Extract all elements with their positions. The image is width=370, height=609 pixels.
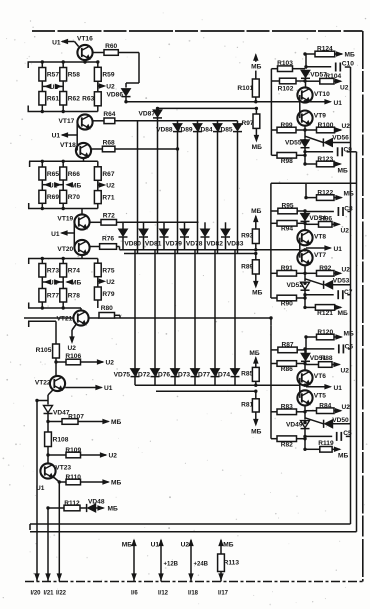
svg-text:U2: U2: [181, 542, 190, 549]
wire R60 to VD86: [118, 53, 139, 88]
wire R95 right: [297, 210, 305, 212]
resistor R97: [241, 114, 259, 128]
svg-text:U2: U2: [109, 453, 118, 460]
svg-text:R89: R89: [241, 263, 253, 270]
svg-text:VT23: VT23: [55, 464, 71, 471]
diode VD77: [194, 369, 220, 379]
svg-text:VT21: VT21: [57, 315, 73, 322]
svg-text:R82: R82: [281, 441, 293, 448]
transistor VT22: [35, 376, 65, 391]
svg-text:R95: R95: [281, 203, 293, 210]
svg-text:VT7: VT7: [314, 252, 326, 259]
svg-text:R121: R121: [317, 310, 333, 317]
node pin I/17: [218, 540, 234, 597]
resistor R66: [60, 167, 80, 180]
wire R112 branch: [48, 508, 64, 582]
svg-text:U2: U2: [106, 84, 115, 91]
svg-text:VD89: VD89: [176, 127, 193, 134]
wire block2 top line: [271, 182, 357, 184]
node MB arrow R119: [332, 447, 348, 459]
node MB arrow R124: [335, 52, 355, 59]
wire row2 line B: [124, 253, 256, 255]
node U2 arrow R100: [335, 123, 351, 132]
resistor R99: [277, 122, 296, 133]
node U2 arrow R109: [81, 453, 118, 460]
svg-text:VD55: VD55: [285, 139, 302, 146]
node U2 arrow R92: [334, 267, 350, 276]
node U2 arrow R96: [332, 222, 349, 234]
diode VD76: [154, 369, 180, 379]
node MB arrow R120: [334, 331, 354, 340]
resistor R104: [320, 73, 342, 84]
svg-text:R91: R91: [281, 265, 293, 272]
node U2 arrow R88: [332, 362, 349, 374]
resistor R77: [39, 289, 59, 303]
wire block3 outer rail: [271, 325, 277, 438]
svg-text:R98: R98: [281, 158, 293, 165]
wire R119 left: [305, 448, 320, 450]
svg-text:VT8: VT8: [314, 234, 326, 241]
wire R121 left: [305, 306, 315, 308]
svg-text:U2: U2: [342, 267, 351, 274]
svg-text:R124: R124: [317, 46, 333, 53]
node pin I/12: [151, 540, 179, 597]
wire R88 left: [305, 364, 319, 366]
node U1 arrow line row3: [306, 385, 342, 392]
wire R85 bottom: [255, 381, 257, 385]
wire branch to I20: [37, 401, 48, 582]
svg-text:VD82: VD82: [206, 240, 223, 247]
resistor R58: [60, 68, 80, 82]
wire block1 outer rail: [271, 69, 277, 156]
wire stub below VD79: [163, 237, 165, 250]
diode VD84: [196, 124, 222, 134]
svg-text:R86: R86: [281, 366, 293, 373]
wire VT22 to VD47: [48, 390, 53, 405]
svg-text:VT18: VT18: [60, 142, 76, 149]
svg-text:R64: R64: [103, 111, 115, 118]
wire R57 R58 top stubs: [42, 62, 63, 68]
svg-text:R60: R60: [105, 43, 117, 50]
svg-text:U1: U1: [49, 182, 58, 189]
svg-text:R104: R104: [325, 73, 341, 80]
svg-text:R90: R90: [281, 301, 293, 308]
svg-text:VD81: VD81: [145, 240, 162, 247]
resistor R76: [100, 236, 117, 250]
svg-text:VD88: VD88: [156, 127, 173, 134]
svg-text:МБ: МБ: [345, 52, 355, 59]
svg-text:U2: U2: [340, 85, 349, 92]
wire node line L1a: [126, 101, 300, 103]
resistor R87: [278, 342, 297, 353]
wire junction to R109: [48, 454, 66, 456]
diode VD83: [221, 229, 244, 247]
svg-text:U2: U2: [341, 367, 350, 374]
wire base bar VT8 VT7: [299, 238, 301, 258]
svg-text:R69: R69: [47, 194, 59, 201]
svg-text:VT16: VT16: [77, 35, 93, 42]
svg-text:МБ: МБ: [111, 419, 121, 426]
diode VD73: [174, 369, 200, 379]
node U1 MB row stage2: [42, 180, 81, 190]
wire VD50 wires: [305, 418, 351, 424]
wire stub above VD84: [217, 121, 219, 124]
wire VT16 collector: [93, 52, 104, 54]
svg-text:VD73: VD73: [174, 371, 191, 378]
node U1 arrow between VT19 VT20: [51, 222, 74, 248]
wire R100 left: [305, 129, 317, 131]
svg-text:U1: U1: [334, 246, 343, 253]
resistor R71: [94, 191, 114, 204]
resistor R91: [277, 265, 297, 276]
diode VD79: [160, 229, 183, 247]
wire C7 left: [305, 294, 334, 296]
svg-text:R83: R83: [281, 404, 293, 411]
wire bus vertical x197: [197, 131, 199, 253]
resistor R102: [278, 78, 296, 92]
svg-text:VD76: VD76: [154, 371, 171, 378]
wire R79 bottom: [97, 300, 99, 308]
svg-text:U2: U2: [106, 360, 115, 367]
wire VT22 junction R106: [56, 361, 66, 363]
wire stub above VD89: [197, 121, 199, 124]
wire C9 right to rail B: [347, 151, 357, 153]
svg-text:U2: U2: [106, 279, 115, 286]
svg-text:R68: R68: [103, 139, 115, 146]
wire R87 right: [297, 349, 305, 351]
wire stub above VD83: [225, 222, 227, 229]
svg-text:I/17: I/17: [218, 591, 229, 597]
svg-text:МБ: МБ: [252, 289, 262, 296]
resistor R63: [82, 92, 101, 106]
svg-text:R119: R119: [318, 440, 334, 447]
wire R98 right: [297, 154, 306, 156]
wire R102 left: [271, 80, 279, 82]
wire right border line: [362, 31, 364, 582]
svg-text:R66: R66: [68, 171, 80, 178]
wire bottom wrap line B: [30, 531, 357, 533]
svg-text:R92: R92: [319, 265, 331, 272]
wire C10 right to rail: [345, 66, 351, 68]
svg-text:R102: R102: [278, 85, 294, 92]
svg-text:VT5: VT5: [314, 392, 326, 399]
svg-text:VD79: VD79: [165, 240, 182, 247]
resistor R88 body: [319, 362, 333, 368]
wire C10 left: [306, 67, 331, 69]
svg-text:VD80: VD80: [124, 240, 141, 247]
wire R93 bottom: [255, 244, 257, 250]
node U1 arrow line L1a: [306, 100, 342, 107]
wire R82 right: [297, 438, 306, 440]
diode VD75: [114, 369, 140, 379]
diode VD78: [180, 229, 203, 247]
wire C9 left: [305, 151, 333, 153]
transistor VT6: [297, 370, 326, 385]
svg-text:R93: R93: [241, 233, 253, 240]
svg-text:R105: R105: [36, 347, 52, 354]
resistor R65: [39, 167, 59, 180]
svg-text:U2: U2: [68, 345, 77, 352]
svg-text:R76: R76: [102, 236, 114, 243]
wire base bar VT10 VT9: [299, 95, 301, 118]
svg-text:МБ: МБ: [122, 542, 132, 549]
resistor R100: [317, 122, 335, 133]
wire R72 to row line: [117, 221, 124, 223]
wire row2 line A: [122, 249, 301, 251]
svg-text:U1: U1: [52, 39, 61, 46]
wire R123 left: [305, 163, 317, 165]
wire VT21 base line: [24, 308, 81, 318]
wire R92 left: [305, 272, 317, 274]
svg-text:R107: R107: [68, 413, 84, 420]
resistor R101: [237, 79, 259, 97]
wire VT23 to R110: [59, 481, 66, 483]
wire R94 left: [271, 222, 277, 224]
wire R105 to VT22: [55, 358, 57, 376]
node U1 input of VT16: [52, 39, 79, 46]
wire feed to R105: [28, 321, 56, 344]
wire bus vertical x217: [217, 131, 219, 253]
wire stub below VD83: [225, 237, 227, 250]
svg-text:МБ: МБ: [108, 506, 118, 513]
wire R89 top: [255, 254, 257, 260]
node U2 arrow stage2: [98, 180, 115, 190]
svg-text:R120: R120: [317, 329, 333, 336]
wire bus vertical x177: [177, 131, 179, 253]
wire bus vertical low x235: [234, 250, 236, 369]
wire R104 left: [306, 80, 320, 82]
svg-text:R78: R78: [68, 293, 80, 300]
svg-text:R75: R75: [102, 267, 114, 274]
node MB arrow R123: [334, 162, 348, 175]
wire block2 outer rail: [271, 183, 277, 298]
wire VT17 collector: [93, 120, 104, 122]
svg-text:VT9: VT9: [314, 112, 326, 119]
svg-text:U1: U1: [50, 84, 59, 91]
diode VD87: [139, 110, 163, 118]
svg-text:VD83: VD83: [227, 240, 244, 247]
svg-text:R113: R113: [224, 560, 240, 567]
wire VD57 to VT10 node: [305, 78, 307, 88]
diode VD50: [324, 417, 349, 428]
svg-text:МБ: МБ: [71, 280, 81, 287]
resistor R93: [241, 229, 259, 244]
wire rail2: [28, 105, 98, 112]
wire row2 feed line: [122, 221, 199, 223]
resistor R83: [277, 404, 297, 415]
resistor R67: [94, 167, 114, 181]
diode VD81: [139, 229, 162, 247]
wire bus vertical low x195: [194, 250, 196, 369]
svg-text:R59: R59: [102, 72, 114, 79]
svg-text:R101: R101: [237, 85, 253, 92]
transistor VT20: [57, 240, 89, 255]
resistor R121: [315, 305, 334, 317]
wire rail3 to R67: [97, 161, 99, 167]
node MB arrow below R97: [252, 128, 262, 150]
resistor R84: [317, 403, 335, 414]
resistor R122: [317, 190, 335, 201]
svg-text:R79: R79: [102, 291, 114, 298]
svg-text:VT10: VT10: [314, 91, 330, 98]
svg-text:VD56: VD56: [332, 135, 349, 142]
wire stub below VD74: [234, 376, 236, 385]
wire stub above VD82: [204, 222, 206, 229]
svg-text:R112: R112: [64, 500, 80, 507]
node pin I/22: [56, 574, 67, 596]
wire stub below VD75: [134, 376, 136, 385]
resistor R75: [94, 263, 114, 277]
transistor VT19: [57, 214, 89, 229]
diode VD53: [324, 278, 350, 289]
wire stub below VD77: [214, 376, 216, 385]
wire R86 right: [297, 363, 306, 365]
wire R108 to R109 junction: [47, 447, 49, 464]
resistor R109: [65, 447, 81, 458]
node pin I/20: [31, 574, 42, 596]
svg-text:R108: R108: [53, 437, 69, 444]
wire stub below VD72: [154, 376, 156, 385]
wire VD51 to VT6: [304, 350, 306, 370]
wire bottom border line: [25, 581, 363, 583]
resistor R120: [317, 329, 335, 340]
resistor R70: [60, 190, 80, 203]
resistor R59: [94, 67, 114, 81]
resistor R57: [39, 68, 59, 82]
diode VD47: [44, 406, 70, 417]
wire VT5 emitter: [304, 406, 306, 420]
wire VD47 junction to R107: [48, 421, 62, 423]
resistor R60: [104, 43, 118, 55]
wire stub above VD79: [163, 222, 165, 229]
wire bottom wrap line A: [30, 524, 351, 530]
resistor R103: [277, 60, 293, 72]
svg-text:U1: U1: [151, 542, 160, 549]
wire R76 jog to line A: [117, 247, 122, 250]
wire VD87 stub: [157, 108, 159, 120]
node MB arrow above R101: [251, 55, 261, 79]
svg-text:VD75: VD75: [114, 371, 131, 378]
node U2 arrow stage1: [98, 81, 115, 92]
wire capacitor rail B: [356, 152, 358, 532]
resistor R110: [66, 474, 82, 485]
svg-text:+24В: +24В: [194, 562, 209, 568]
node MB arrow R122: [334, 190, 354, 199]
wire stub above VD88: [177, 121, 179, 124]
diode VD54: [301, 213, 327, 222]
node U2 arrow R84: [334, 404, 350, 413]
wire R81 top: [255, 391, 257, 399]
svg-text:U2: U2: [342, 404, 351, 411]
resistor R62: [60, 92, 80, 106]
wire stub below VD76: [174, 376, 176, 385]
transistor VT9: [297, 111, 326, 126]
wire R83 right: [297, 411, 306, 413]
svg-text:VD86: VD86: [107, 92, 124, 99]
svg-text:U1: U1: [334, 385, 343, 392]
svg-text:VD72: VD72: [134, 371, 151, 378]
resistor R89: [241, 260, 259, 274]
resistor R98: [277, 153, 297, 165]
node pin I/21: [44, 574, 55, 596]
svg-text:МБ: МБ: [251, 63, 261, 70]
diode VD80: [119, 229, 142, 247]
wire R97 top: [255, 108, 257, 114]
wire stub above VD85: [237, 121, 239, 124]
wire R83 left: [271, 411, 277, 413]
svg-text:R58: R58: [68, 72, 80, 79]
wire row1 line L2: [115, 120, 238, 122]
svg-text:I/6: I/6: [131, 591, 138, 597]
wire bus vertical low x135: [134, 250, 136, 369]
resistor R90: [277, 295, 297, 307]
diode VD88: [156, 124, 182, 134]
wire stub above VD81: [143, 222, 145, 229]
svg-text:R109: R109: [65, 447, 81, 454]
diode VD56: [323, 135, 349, 147]
wire R68 to bus: [115, 148, 178, 150]
svg-text:I/12: I/12: [158, 591, 169, 597]
svg-text:МБ: МБ: [251, 428, 261, 435]
wire bus vertical low x155: [154, 250, 156, 369]
diode VD48: [87, 498, 105, 512]
wire R87 left: [271, 349, 278, 351]
node MB arrow above R85: [249, 350, 259, 368]
svg-text:VT20: VT20: [57, 246, 73, 253]
wire stub below VD80: [122, 237, 124, 250]
node MB arrow R121: [335, 305, 348, 317]
diode VD89: [176, 124, 202, 134]
wire R65 R66 top stubs: [42, 161, 63, 167]
svg-text:VT6: VT6: [314, 373, 326, 380]
svg-text:МБ: МБ: [251, 208, 261, 215]
wire R95 left: [271, 210, 278, 212]
svg-text:R77: R77: [47, 293, 59, 300]
svg-text:VD52: VD52: [287, 282, 304, 289]
svg-text:МБ: МБ: [71, 182, 81, 189]
svg-text:R81: R81: [241, 402, 253, 409]
node U1 row stage1: [42, 81, 63, 92]
wire R84 left: [305, 410, 317, 412]
svg-text:R106: R106: [65, 353, 81, 360]
resistor R95: [278, 203, 297, 214]
capacitor C10: [336, 60, 355, 71]
svg-text:U1: U1: [104, 385, 113, 392]
wire VD52 bottom chain: [304, 290, 306, 308]
wire base bar VT6 VT5: [299, 378, 301, 398]
wire VT9 emitter: [304, 126, 306, 139]
svg-text:R80: R80: [101, 305, 113, 312]
diode VD85: [216, 124, 242, 134]
node MB arrow R107: [78, 419, 121, 426]
resistor R61: [39, 92, 59, 106]
capacitor C9: [338, 146, 353, 156]
wire rail1 to R59: [92, 62, 98, 67]
svg-text:I/20: I/20: [31, 590, 42, 596]
wire R112 to VD48: [80, 507, 87, 509]
resistor R79: [94, 287, 114, 300]
svg-text:VD49: VD49: [286, 421, 303, 428]
wire R94 right: [297, 222, 305, 224]
wire bus vertical x157: [157, 122, 159, 254]
diode VD52: [287, 282, 310, 290]
svg-text:R67: R67: [102, 171, 114, 178]
svg-text:R63: R63: [82, 96, 94, 103]
wire VT16 emitter rail: [28, 60, 93, 68]
svg-text:R57: R57: [47, 72, 59, 79]
wire node line L1b: [158, 107, 257, 109]
transistor VT17: [59, 114, 93, 129]
